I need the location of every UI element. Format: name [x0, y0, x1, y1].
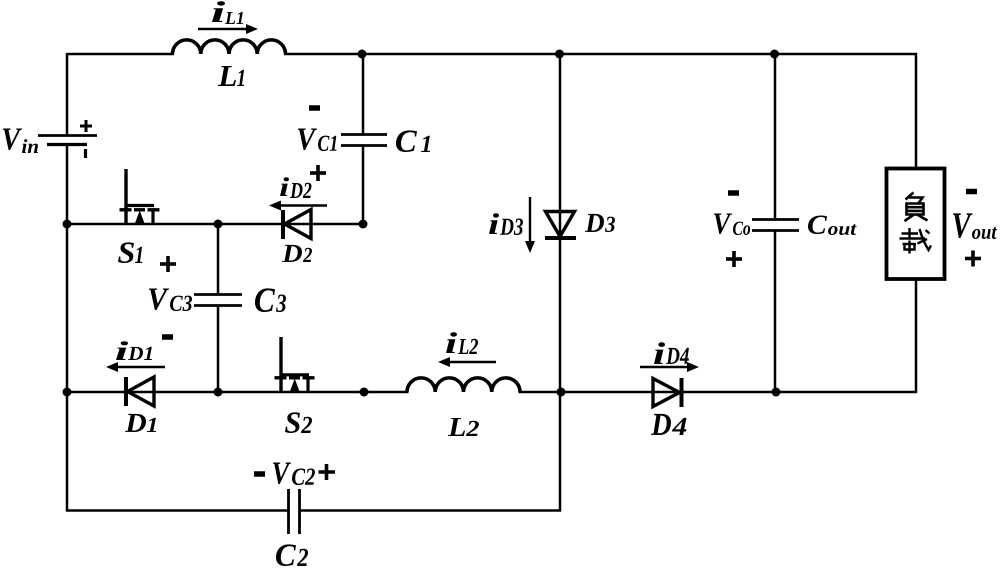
label Vin [3, 129, 38, 154]
node D4-Cout junction [772, 388, 781, 397]
label VC1 [298, 129, 337, 152]
capacitor C3 [194, 295, 242, 306]
label Cout [808, 216, 857, 236]
label Vout plus [965, 251, 981, 267]
label D2 [282, 245, 312, 262]
wire S1/D2 row [66, 223, 364, 226]
current arrow iD2 [269, 201, 327, 211]
label battery minus tick [84, 149, 87, 158]
wire C1 branch vertical upper [362, 53, 365, 134]
wire bottom row right of L2 [519, 391, 918, 394]
node S2-L2 junction [360, 388, 369, 397]
label D3 [585, 214, 615, 232]
node top D3 junction [555, 50, 564, 59]
node D2-C1 junction [359, 220, 368, 229]
wire C1 branch vertical lower [362, 146, 365, 225]
label iD4 [654, 342, 689, 364]
label S2 [285, 412, 312, 433]
label C3 [255, 288, 286, 312]
label VCo minus [728, 190, 739, 196]
node L2-D3 junction [557, 388, 566, 397]
capacitor C1 [341, 135, 387, 146]
current arrow iD4 [640, 362, 699, 372]
wire bottom rail left of C2 [66, 509, 288, 512]
current arrow iD3 [525, 197, 535, 253]
node S1 row left junction [63, 220, 72, 229]
label VC1 minus [309, 105, 320, 111]
label C2 [276, 544, 308, 566]
node D1-C3 junction [214, 388, 223, 397]
current arrow iL1 [198, 24, 258, 34]
label Vout minus [966, 189, 977, 195]
label iD2 [280, 177, 312, 198]
wire top rail right of L1 [284, 53, 917, 56]
wire D3 branch vertical [559, 53, 562, 512]
label load character zai (载) [900, 228, 932, 254]
label iL1 [212, 1, 243, 24]
capacitor C2 [289, 489, 300, 534]
wire left rail upper (top corner to battery) [66, 53, 69, 136]
wire C3 branch vertical lower [217, 306, 220, 392]
current arrow iD1 [106, 362, 165, 372]
current arrow iL2 [438, 357, 496, 367]
diode D1 [126, 377, 154, 406]
wire bottom rail right of C2 [299, 509, 561, 512]
battery Vin negative plate [47, 143, 87, 146]
label iD1 [116, 341, 152, 360]
label VCo [714, 214, 750, 236]
wire right rail lower (load to bottom row) [915, 278, 918, 393]
label VC3 minus [162, 334, 173, 340]
label D4 [651, 414, 687, 435]
capacitor Cout [752, 220, 799, 231]
label VCo plus [726, 251, 742, 267]
wire right rail upper (top rail to load) [915, 53, 918, 170]
label VC2 [273, 463, 315, 486]
label Vout [953, 213, 997, 239]
transistor S1 [120, 169, 160, 224]
label S1 [118, 242, 142, 263]
wire top rail left of L1 [67, 53, 174, 56]
load box [887, 169, 945, 280]
label iD3 [489, 213, 523, 235]
wire left rail lower (battery to bottom rail) [66, 144, 69, 511]
wire Cout branch vertical upper [774, 53, 777, 219]
label VC2 plus [319, 464, 336, 480]
label iL2 [446, 332, 478, 354]
label VC2 minus [254, 471, 265, 477]
transistor S2 [275, 337, 315, 392]
inductor L2 [407, 378, 520, 392]
label D1 [125, 414, 156, 432]
label L2 [448, 418, 479, 436]
label L1 [218, 66, 244, 86]
wire Cout branch vertical lower [774, 230, 777, 393]
label VC1 plus [310, 165, 326, 181]
battery Vin positive plate [38, 134, 97, 137]
node top C1 junction [358, 50, 367, 59]
inductor L1 [173, 40, 286, 54]
node S1-C3 junction [214, 220, 223, 229]
node D1 row left junction [63, 388, 72, 397]
wire bottom row left of L2 [66, 391, 409, 394]
label VC3 [149, 289, 192, 312]
label VC3 plus [160, 256, 176, 272]
diode D2 [283, 210, 311, 240]
node top Cout junction [770, 50, 779, 59]
label battery plus [80, 120, 92, 132]
label load character fu (负) [905, 193, 928, 222]
diode D4 [653, 378, 682, 407]
label C1 [396, 130, 430, 152]
wire C3 branch vertical upper [217, 223, 220, 294]
diode D3 [545, 212, 576, 239]
